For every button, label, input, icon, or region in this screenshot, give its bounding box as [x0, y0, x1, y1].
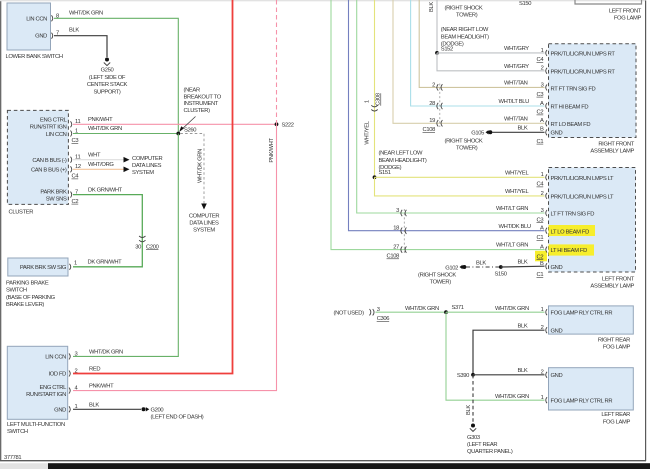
wire WHT/YEL vertical from top to S151 — [374, 0, 376, 177]
inline connector pin 28 on WHT/LT BLU wire — [429, 101, 442, 109]
svg-text:C4: C4 — [537, 57, 545, 63]
svg-text:TOWER): TOWER) — [430, 280, 452, 286]
svg-text:WHT/YEL: WHT/YEL — [365, 120, 371, 144]
svg-text:WHT/ORG: WHT/ORG — [88, 162, 114, 168]
svg-text:1: 1 — [541, 395, 544, 401]
wire WHT/TAN vertical to RT FT TRN SIG FD — [419, 0, 544, 87]
pin A left front lamp lo beam — [537, 226, 548, 242]
svg-text:FOG LAMP: FOG LAMP — [603, 345, 631, 351]
svg-text:S222: S222 — [282, 122, 294, 128]
wire BLK from pin 1 to G200 — [73, 402, 141, 409]
svg-text:RIGHT REAR: RIGHT REAR — [598, 338, 630, 344]
svg-text:WHT/YEL: WHT/YEL — [505, 189, 529, 195]
svg-text:WHT/DK GRN: WHT/DK GRN — [69, 10, 103, 16]
svg-text:S390: S390 — [457, 373, 469, 379]
svg-text:PRK/TL/LIC/RUN LMPS RT: PRK/TL/LIC/RUN LMPS RT — [551, 69, 616, 75]
splice S260 — [176, 127, 196, 135]
svg-text:FOG LAMP RLY CTRL RR: FOG LAMP RLY CTRL RR — [551, 311, 613, 317]
svg-text:SUPPORT): SUPPORT) — [93, 89, 120, 95]
svg-text:(NOT USED): (NOT USED) — [334, 310, 365, 316]
svg-text:LT FT TRN SIG FD: LT FT TRN SIG FD — [551, 212, 595, 218]
inline connector C200 pin 30 — [135, 236, 158, 250]
svg-text:WHT/TAN: WHT/TAN — [504, 81, 528, 87]
svg-text:18: 18 — [393, 226, 399, 232]
pin 3 right front lamp — [537, 82, 548, 98]
callout (NEAR RIGHT LOW BEAM HEADLIGHT) (DODGE) — [441, 27, 489, 52]
svg-text:BRAKE LEVER): BRAKE LEVER) — [6, 302, 44, 308]
ground G303 (left rear quarter panel) — [467, 424, 513, 456]
svg-text:WHT/YEL: WHT/YEL — [505, 170, 529, 176]
svg-text:WHT/LT GRN: WHT/LT GRN — [496, 243, 528, 249]
svg-text:WHT/DK GRN: WHT/DK GRN — [198, 149, 204, 183]
svg-text:A: A — [540, 245, 544, 251]
svg-text:PNK/WHT: PNK/WHT — [269, 138, 275, 163]
svg-text:BLK: BLK — [476, 261, 486, 267]
svg-text:B: B — [540, 126, 544, 132]
svg-text:1: 1 — [541, 48, 544, 54]
svg-text:FOG LAMP: FOG LAMP — [614, 15, 642, 21]
svg-text:IOD FD: IOD FD — [48, 372, 66, 378]
svg-text:(NEAR RIGHT LOW: (NEAR RIGHT LOW — [441, 27, 489, 33]
svg-text:PARK BRK: PARK BRK — [40, 190, 67, 196]
svg-text:FOG LAMP: FOG LAMP — [603, 419, 631, 425]
svg-text:PNK/WHT: PNK/WHT — [88, 117, 113, 123]
pin 1 left front lamp — [537, 172, 548, 187]
switch LEFT MULTI-FUNCTION SWITCH — [7, 346, 68, 435]
wire WHT/DK GRN from cluster pin 1 to S260 — [73, 126, 178, 133]
wire WHT/YEL S151 to LT PRK pin 1 — [375, 170, 545, 177]
svg-text:CAN B BUS (+): CAN B BUS (+) — [31, 167, 67, 173]
svg-text:LOWER BANK SWITCH: LOWER BANK SWITCH — [6, 54, 63, 60]
svg-text:BLK: BLK — [518, 125, 528, 131]
svg-text:TOWER): TOWER) — [456, 146, 478, 152]
ground G200 (left end of dash) — [142, 407, 204, 420]
svg-text:BLK: BLK — [466, 405, 472, 415]
svg-text:30: 30 — [135, 244, 141, 250]
svg-text:SYSTEM: SYSTEM — [193, 227, 215, 233]
svg-text:GND: GND — [551, 329, 563, 335]
svg-text:SWITCH: SWITCH — [6, 288, 27, 294]
svg-text:3: 3 — [75, 351, 78, 357]
component CLUSTER — [7, 110, 68, 215]
svg-text:S260: S260 — [184, 127, 196, 133]
wire WHT/DK BLU vertical to LT LO BEAM FD — [349, 0, 545, 231]
svg-text:RED: RED — [89, 367, 100, 373]
svg-text:LIN CCN: LIN CCN — [45, 355, 66, 361]
pin 1 of left multi-function switch — [69, 404, 78, 412]
svg-text:GND: GND — [54, 408, 66, 414]
svg-text:C108: C108 — [423, 127, 436, 133]
svg-text:BLK: BLK — [518, 259, 528, 265]
connector C108 dashed line left front — [403, 209, 405, 253]
svg-text:ASSEMBLY LAMP: ASSEMBLY LAMP — [590, 149, 634, 155]
pin 2 left rear fog lamp — [541, 370, 547, 378]
svg-text:G303: G303 — [467, 435, 480, 441]
wire BLK G105 to RT GND pin B — [492, 125, 545, 132]
inline connector pin 3 on WHT/LT GRN wire — [396, 208, 406, 216]
svg-text:WHT/GRY: WHT/GRY — [504, 46, 529, 52]
svg-text:C4: C4 — [72, 174, 80, 180]
svg-text:ENG CTRL: ENG CTRL — [39, 385, 67, 391]
svg-text:WHT/DK GRN: WHT/DK GRN — [495, 306, 529, 312]
pin 3 of left multi-function switch — [69, 351, 78, 359]
pin 7 cluster C2 — [71, 190, 79, 198]
svg-text:COMPUTER: COMPUTER — [132, 156, 163, 162]
inline connector pin 27 C108 on WHT/LT GRN wire — [387, 245, 407, 260]
svg-text:C308: C308 — [376, 93, 382, 106]
svg-text:ENG CTRL: ENG CTRL — [40, 118, 68, 124]
pin 11 cluster C4 — [71, 155, 81, 163]
svg-text:27: 27 — [393, 245, 399, 251]
svg-text:LT LO BEAM FD: LT LO BEAM FD — [551, 229, 590, 235]
highlight C2 — [535, 251, 547, 261]
wire BLK from pin 7 to G250 — [54, 28, 107, 57]
lamp RIGHT FRONT ASSEMBLY LAMP — [549, 44, 637, 155]
pin 1 of parking brake switch — [70, 261, 78, 270]
svg-text:BLK: BLK — [89, 402, 99, 408]
inline connector pin 19 C108 on WHT/TAN wire — [423, 118, 443, 133]
callout (NEAR LEFT LOW BEAM HEADLIGHT) (DODGE) — [379, 151, 427, 176]
svg-text:2: 2 — [541, 325, 544, 331]
wire BLK dashed S390 to G303 — [466, 375, 473, 424]
svg-text:A: A — [540, 101, 544, 107]
svg-text:WHT/DK GRN: WHT/DK GRN — [88, 126, 122, 132]
pin 1 cluster C3 — [71, 128, 79, 136]
svg-text:BEAM HEADLIGHT): BEAM HEADLIGHT) — [441, 34, 489, 40]
svg-text:B: B — [540, 261, 544, 267]
svg-text:GND: GND — [551, 265, 563, 271]
pin 2 right front lamp — [541, 66, 547, 74]
svg-text:(LEFT SIDE OF: (LEFT SIDE OF — [89, 75, 126, 81]
svg-text:WHT/DK BLU: WHT/DK BLU — [499, 224, 531, 230]
pin 1 right front lamp — [537, 48, 548, 63]
wire PNK/WHT dashed from S222 up off page — [276, 0, 278, 124]
wire WHT/DK GRN S371 down to left rear fog lamp pin 1 — [446, 312, 545, 400]
ground G105 (right shock tower) — [445, 130, 493, 152]
pin A right front lamp lo beam — [540, 118, 547, 126]
svg-text:S150: S150 — [495, 271, 507, 277]
svg-text:C2: C2 — [537, 254, 544, 260]
svg-text:WHT/GRY: WHT/GRY — [504, 64, 529, 70]
splice S151 — [373, 175, 377, 179]
pin 4 of left multi-function switch — [69, 386, 79, 394]
label COMPUTER DATA LINES SYSTEM (cluster) — [132, 156, 163, 176]
svg-text:LEFT MULTI-FUNCTION: LEFT MULTI-FUNCTION — [7, 422, 65, 428]
svg-text:LEFT FRONT: LEFT FRONT — [602, 276, 635, 282]
callout (NEAR BREAKOUT TO INSTRUMENT CLUSTER) — [179, 88, 222, 132]
svg-text:BREAKOUT TO: BREAKOUT TO — [184, 94, 222, 100]
wire WHT/DK GRN from pin 8 to S260 — [54, 10, 178, 133]
svg-text:PRK/TL/LIC/RUN LMPS LT: PRK/TL/LIC/RUN LMPS LT — [551, 195, 615, 201]
svg-text:PRK/TL/LIC/RUN LMPS RT: PRK/TL/LIC/RUN LMPS RT — [551, 52, 616, 58]
wire PNK/WHT from S222 down to left multi-function switch pin 4 — [73, 124, 277, 390]
svg-text:PRK/TL/LIC/RUN LMPS LT: PRK/TL/LIC/RUN LMPS LT — [551, 176, 615, 182]
splice S150 — [495, 265, 507, 277]
pin 12 cluster C4 — [71, 164, 81, 172]
svg-text:2: 2 — [75, 368, 78, 374]
inline connector pin 18 on WHT/DK BLU wire — [393, 226, 406, 234]
splice S390 — [457, 373, 475, 379]
svg-text:G200: G200 — [151, 407, 164, 413]
svg-text:C3: C3 — [537, 217, 544, 223]
svg-text:DK GRN/WHT: DK GRN/WHT — [88, 187, 123, 193]
wire WHT/LT GRN vertical to LT FT TRN SIG FD — [357, 0, 545, 213]
svg-text:3: 3 — [541, 82, 544, 88]
wire WHT/GRY vertical from top to S152 — [436, 0, 438, 53]
pin 7 of lower bank switch — [52, 31, 60, 39]
svg-text:C2: C2 — [72, 199, 79, 205]
lamp LEFT FRONT FOG LAMP (cut off top) — [575, 0, 642, 21]
svg-text:(BASE OF PARKING: (BASE OF PARKING — [6, 295, 56, 301]
ground G102 (right shock tower) — [418, 265, 466, 286]
label PARKING BRAKE SWITCH (BASE OF PARKING BRAKE LEVER) — [6, 280, 56, 308]
svg-text:GND: GND — [35, 34, 47, 40]
svg-text:CLUSTER): CLUSTER) — [184, 108, 211, 114]
wire WHT/DK GRN S371 to right rear fog lamp pin 1 — [446, 306, 545, 312]
svg-text:LEFT REAR: LEFT REAR — [601, 412, 630, 418]
svg-text:C4: C4 — [537, 182, 545, 188]
svg-text:(RIGHT SHOCK: (RIGHT SHOCK — [418, 273, 456, 279]
svg-text:WHT/LT GRN: WHT/LT GRN — [496, 206, 528, 212]
svg-text:CENTER STACK: CENTER STACK — [87, 82, 128, 88]
svg-text:LEFT FRONT: LEFT FRONT — [609, 8, 642, 14]
connector C108 dashed line right front — [439, 84, 441, 128]
svg-text:LT HI BEAM FD: LT HI BEAM FD — [551, 248, 588, 254]
svg-text:SWITCH: SWITCH — [7, 429, 28, 435]
wire BLK dash-dot G102 to S150 — [466, 261, 501, 267]
svg-text:(NEAR: (NEAR — [184, 88, 200, 94]
svg-text:S150: S150 — [519, 1, 531, 7]
wire WHT/LT BLU vertical to RT HI BEAM FD — [411, 0, 545, 106]
svg-text:2: 2 — [541, 66, 544, 72]
svg-text:GND: GND — [551, 373, 563, 379]
svg-text:TOWER): TOWER) — [456, 12, 478, 18]
svg-text:BLK: BLK — [429, 2, 435, 12]
svg-text:RUN/START IGN: RUN/START IGN — [26, 392, 66, 398]
svg-text:19: 19 — [429, 118, 435, 124]
pin 2 left front lamp — [541, 191, 547, 199]
pin A right front lamp hi beam — [537, 101, 548, 116]
pin 11 cluster C3 — [71, 119, 81, 127]
svg-text:WHT/LT BLU: WHT/LT BLU — [499, 99, 530, 105]
wire BLK S390 to left rear fog lamp pin 2 — [473, 368, 545, 375]
pin B left front lamp gnd — [537, 261, 548, 278]
pin 3 left front lamp — [537, 208, 548, 224]
svg-text:(LEFT END OF DASH): (LEFT END OF DASH) — [151, 415, 204, 421]
svg-text:C3: C3 — [72, 138, 79, 144]
svg-text:PARK BRK SW SIG: PARK BRK SW SIG — [20, 265, 67, 271]
svg-text:C108: C108 — [387, 254, 400, 260]
svg-text:S371: S371 — [452, 305, 464, 311]
svg-text:BLK: BLK — [69, 28, 79, 34]
svg-text:1: 1 — [74, 261, 77, 267]
pin 2 right rear fog lamp — [541, 325, 547, 333]
splice S152 — [435, 51, 439, 55]
wire BLK S150 to LT GND pin B — [501, 259, 545, 267]
svg-text:2: 2 — [541, 191, 544, 197]
svg-text:PARKING BRAKE: PARKING BRAKE — [6, 280, 49, 286]
inline connector pin 2 on WHT/TAN wire — [432, 82, 442, 90]
svg-text:C1: C1 — [537, 272, 544, 278]
svg-text:ASSEMBLY LAMP: ASSEMBLY LAMP — [590, 284, 634, 290]
wire WHT/LT GRN vertical to LT HI BEAM FD — [331, 0, 545, 250]
svg-text:BLK: BLK — [518, 368, 528, 374]
svg-text:RT HI BEAM FD: RT HI BEAM FD — [551, 105, 589, 111]
svg-text:QUARTER PANEL): QUARTER PANEL) — [467, 449, 513, 455]
svg-text:BLK: BLK — [518, 323, 528, 329]
splice S371 — [444, 305, 464, 314]
svg-text:WHT/DK GRN: WHT/DK GRN — [495, 394, 529, 400]
svg-text:(NEAR LEFT LOW: (NEAR LEFT LOW — [379, 151, 424, 157]
pin B right front lamp gnd — [537, 126, 548, 144]
svg-text:DK GRN/WHT: DK GRN/WHT — [88, 260, 123, 266]
svg-text:A: A — [540, 118, 544, 124]
svg-text:C1: C1 — [537, 139, 544, 145]
svg-text:RUN/STRT IGN: RUN/STRT IGN — [30, 125, 67, 131]
svg-text:28: 28 — [429, 101, 435, 107]
svg-text:G102: G102 — [445, 265, 458, 271]
svg-text:C2: C2 — [537, 110, 544, 116]
svg-text:3: 3 — [396, 208, 399, 214]
pin 2 of left multi-function switch — [69, 368, 78, 376]
wire WHT/ORG cluster CAN B BUS(+) to computer data lines — [73, 162, 130, 172]
svg-text:C3: C3 — [537, 92, 544, 98]
inline connector C308 pin 1 on WHT/YEL wire — [364, 93, 381, 111]
pin 1 right rear fog lamp — [541, 307, 547, 315]
pin A left front lamp hi beam — [537, 245, 548, 261]
svg-text:RT FT TRN SIG FD: RT FT TRN SIG FD — [551, 87, 596, 93]
wire WHT/TAN vertical to RT LO BEAM FD — [393, 0, 545, 123]
svg-text:G250: G250 — [101, 68, 114, 74]
svg-text:G105: G105 — [471, 131, 484, 137]
svg-text:WHT: WHT — [88, 152, 101, 158]
svg-text:C200: C200 — [146, 244, 159, 250]
svg-text:FOG LAMP RLY CTRL RR: FOG LAMP RLY CTRL RR — [551, 399, 613, 405]
svg-text:PNK/WHT: PNK/WHT — [89, 384, 114, 390]
svg-text:RIGHT FRONT: RIGHT FRONT — [598, 142, 634, 148]
wire RED vertical from top to left multi-function switch pin 2 — [73, 0, 233, 374]
svg-text:(LEFT REAR: (LEFT REAR — [467, 442, 497, 448]
wire DK GRN/WHT cluster pin 7 to park brake switch — [73, 187, 142, 266]
svg-text:LIN CCN: LIN CCN — [26, 16, 47, 22]
lamp RIGHT REAR FOG LAMP — [549, 306, 634, 351]
wire WHT/DK GRN from S260 down to left multi-function switch pin 3 — [73, 134, 178, 357]
svg-text:S151: S151 — [379, 170, 391, 176]
svg-text:WHT/DK GRN: WHT/DK GRN — [405, 306, 439, 312]
svg-text:(RIGHT SHOCK: (RIGHT SHOCK — [445, 139, 483, 145]
svg-text:1: 1 — [541, 307, 544, 313]
wire WHT/YEL S151 branch to LT PRK pin 2 — [375, 177, 545, 196]
svg-text:377781: 377781 — [4, 455, 21, 461]
svg-text:3: 3 — [541, 208, 544, 214]
wire WHT/GRY S152 branch to RT PRK pin 2 — [437, 53, 545, 71]
splice S222 — [275, 122, 294, 128]
svg-text:BEAM HEADLIGHT): BEAM HEADLIGHT) — [379, 158, 427, 164]
wire WHT/DK GRN C306 to S371 — [376, 306, 447, 312]
svg-text:WHT/TAN: WHT/TAN — [504, 116, 528, 122]
svg-text:CLUSTER: CLUSTER — [9, 209, 34, 215]
wire BLK right rear fog lamp pin 2 to S390 — [473, 323, 545, 375]
highlight LT LO BEAM FD — [549, 225, 596, 236]
wire WHT cluster CAN B BUS(-) to computer data lines — [73, 152, 130, 162]
svg-text:GND: GND — [551, 131, 563, 137]
pin 8 of lower bank switch — [52, 13, 60, 21]
svg-text:(RIGHT SHOCK: (RIGHT SHOCK — [445, 5, 483, 11]
svg-text:S152: S152 — [441, 47, 453, 53]
svg-text:SYSTEM: SYSTEM — [132, 170, 154, 176]
svg-text:LIN CCN: LIN CCN — [46, 132, 67, 138]
svg-text:DATA LINES: DATA LINES — [132, 163, 162, 169]
svg-text:C306: C306 — [377, 316, 390, 322]
svg-text:CAN B BUS (-): CAN B BUS (-) — [32, 158, 67, 164]
switch LOWER BANK SWITCH — [6, 3, 63, 60]
lamp LEFT REAR FOG LAMP — [549, 368, 634, 426]
ground G250 (left side of center stack support) — [87, 58, 128, 96]
dashed branch WHT/DK GRN from S260 to computer data lines system — [180, 134, 219, 234]
svg-text:SW SNS: SW SNS — [46, 196, 67, 202]
svg-text:A: A — [540, 226, 544, 232]
lamp LEFT FRONT ASSEMBLY LAMP — [535, 168, 636, 290]
svg-text:2: 2 — [541, 370, 544, 376]
svg-text:RT LO BEAM FD: RT LO BEAM FD — [551, 122, 591, 128]
svg-text:WHT/DK GRN: WHT/DK GRN — [89, 349, 123, 355]
switch PARK BRK SW SIG — [8, 258, 68, 276]
svg-text:1: 1 — [364, 100, 370, 103]
wire WHT/GRY S152 to RT PRK pin 1 — [437, 46, 545, 53]
callout (RIGHT SHOCK TOWER) top — [445, 5, 483, 18]
svg-text:COMPUTER: COMPUTER — [189, 213, 220, 219]
svg-text:1: 1 — [541, 172, 544, 178]
svg-text:C1: C1 — [537, 235, 544, 241]
svg-text:INSTRUMENT: INSTRUMENT — [184, 101, 219, 107]
highlight LT HI BEAM FD — [549, 244, 595, 255]
pin 1 left rear fog lamp — [541, 395, 547, 403]
wire PNK/WHT from cluster pin 11 to S222 — [73, 117, 277, 124]
svg-text:DATA LINES: DATA LINES — [189, 220, 219, 226]
connector C306 pin 3 (NOT USED) — [334, 307, 390, 322]
svg-text:2: 2 — [432, 82, 435, 88]
